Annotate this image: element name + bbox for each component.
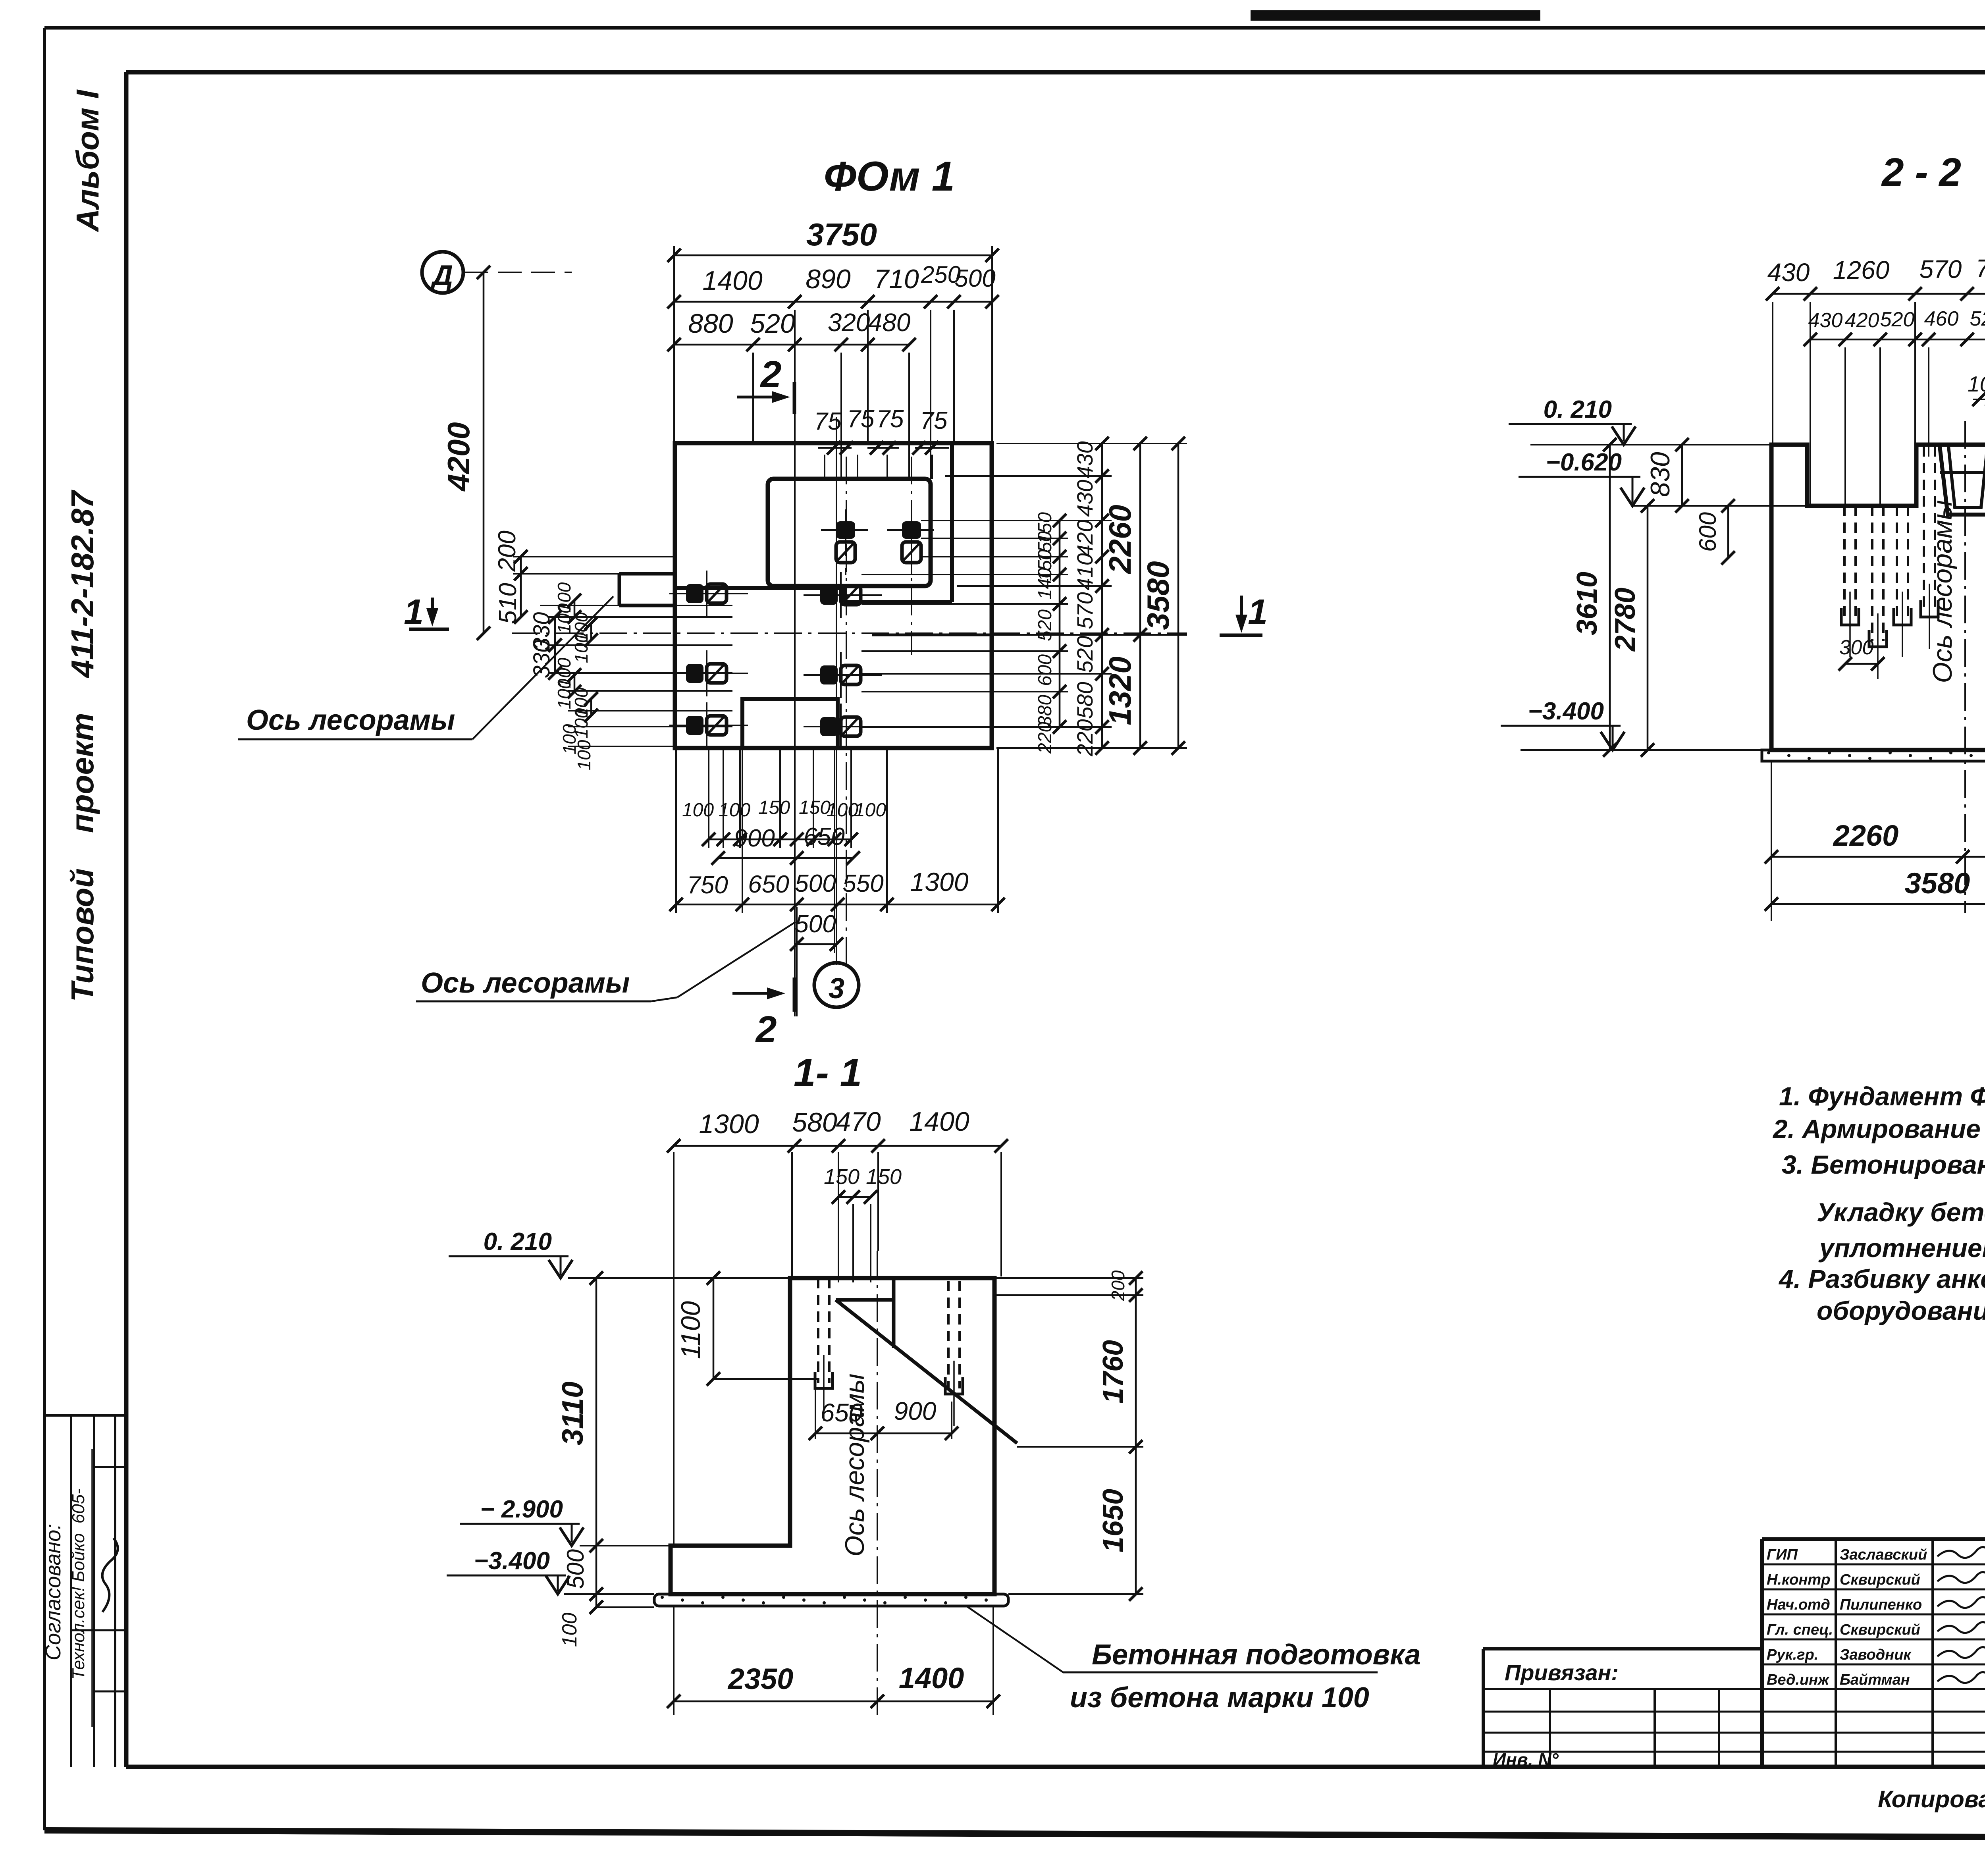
svg-text:Бетонная подготовка: Бетонная подготовка — [1092, 1639, 1421, 1671]
plan right dimension 2260/1320 — [1102, 437, 1147, 755]
plan title: ФОм 1 — [824, 153, 955, 200]
section 2-2 anchor pocket — [1940, 446, 1985, 515]
plan right witness lines — [861, 443, 1187, 748]
svg-text:1400: 1400 — [899, 1662, 964, 1695]
svg-text:500: 500 — [562, 1549, 589, 1589]
section 1-1 level -2.900 — [460, 1496, 671, 1546]
svg-text:650: 650 — [821, 1398, 863, 1427]
svg-text:430: 430 — [1072, 480, 1097, 517]
section 2-2 level -0.620 — [1519, 449, 1807, 506]
svg-text:3. Бетонирование фундамента: 3. Бетонирование фундамента ФОм1 вести н… — [1782, 1150, 1985, 1179]
svg-text:100: 100 — [854, 800, 886, 821]
section title: 2 - 2 — [1881, 150, 1961, 195]
section 2-2 level 0.210 — [1509, 396, 1636, 445]
section 2-2 footing slab — [1762, 750, 1985, 761]
svg-text:уплотнением глубинными вибр: уплотнением глубинными вибраторами. — [1818, 1233, 1985, 1263]
label: Бетонная подготовка (section 1-1) — [966, 1606, 1421, 1714]
svg-text:520: 520 — [1880, 308, 1915, 331]
section 1-1 bottom dims 2350/1400 — [667, 1606, 1000, 1715]
grid axis 3 (circle, below plan) — [814, 944, 859, 1007]
plan interior step lines — [675, 443, 992, 635]
svg-text:650: 650 — [804, 823, 844, 850]
svg-text:1320: 1320 — [1102, 656, 1137, 725]
svg-text:1300: 1300 — [699, 1109, 759, 1139]
grid axis Д (circle) — [422, 252, 572, 293]
margin text: Технол.сек Бойко — [69, 1449, 118, 1727]
svg-text:Копировал Герман: Копировал Герман — [1878, 1786, 1985, 1812]
section 2-2 level -3.400 — [1501, 698, 1762, 750]
svg-text:300: 300 — [1839, 636, 1874, 659]
plan witness lines from top chains — [753, 310, 954, 1016]
svg-text:150: 150 — [799, 797, 831, 818]
svg-text:100: 100 — [719, 800, 750, 821]
section 1-1 saw-frame axis — [840, 1251, 877, 1719]
section 1-1 right dims 200/1760/1650 — [994, 1270, 1143, 1601]
svg-text:320: 320 — [828, 308, 870, 337]
svg-text:600: 600 — [1694, 512, 1721, 552]
section 1-1 level 0.210 — [449, 1228, 790, 1278]
svg-text:520: 520 — [1970, 307, 1985, 330]
signature table texts — [1767, 1546, 1985, 1688]
section title: 1-1 — [794, 1051, 862, 1095]
plan left witness lines — [513, 557, 732, 746]
svg-text:100: 100 — [827, 800, 858, 821]
svg-text:1400: 1400 — [702, 266, 762, 296]
label: Ось лесорамы (left) — [238, 596, 613, 739]
section 2-2 left dims: 830 600 2780 3610 — [1530, 438, 1771, 757]
svg-text:1650: 1650 — [1097, 1489, 1129, 1552]
plan anchor bolts (left column) — [669, 571, 748, 748]
title block: signature table — [1762, 1539, 1985, 1767]
svg-text:75: 75 — [847, 405, 875, 433]
svg-text:1: 1 — [1248, 592, 1268, 632]
svg-text:2780: 2780 — [1609, 588, 1641, 652]
svg-text:ГИП: ГИП — [1767, 1546, 1798, 1563]
section 1-1 anchor bolts — [815, 1278, 963, 1426]
svg-text:480: 480 — [868, 308, 911, 337]
notes list — [1772, 1082, 1985, 1325]
svg-text:Н.контр: Н.контр — [1767, 1571, 1830, 1588]
svg-text:75: 75 — [877, 405, 904, 433]
svg-text:140: 140 — [1035, 568, 1056, 600]
section mark 2 (top) — [737, 353, 794, 414]
svg-text:3750: 3750 — [806, 217, 877, 252]
svg-text:4200: 4200 — [441, 422, 476, 492]
margin text: Типовой проект 411-2-182.87 — [65, 490, 100, 1002]
svg-text:220: 220 — [1035, 722, 1056, 754]
svg-text:1400: 1400 — [909, 1107, 969, 1137]
svg-text:830: 830 — [1645, 452, 1675, 497]
svg-text:0. 210: 0. 210 — [484, 1228, 552, 1255]
plan left small 100 dimensions — [554, 582, 598, 770]
plan lower dimension row 100 100 150 150 100 100 — [682, 797, 886, 846]
svg-text:Альбом I: Альбом I — [70, 89, 105, 233]
svg-text:100: 100 — [1968, 372, 1985, 396]
svg-text:1- 1: 1- 1 — [794, 1051, 862, 1095]
svg-text:Ось лесорамы: Ось лесорамы — [1927, 500, 1958, 683]
dimension chain: 880 520 320 480 — [667, 308, 916, 351]
svg-text:Привязан:: Привязан: — [1505, 1660, 1619, 1685]
svg-text:220: 220 — [1072, 719, 1097, 756]
svg-text:Пилипенко: Пилипенко — [1840, 1596, 1922, 1613]
section 2-2 bottom dims 2260/1320 — [1765, 761, 1985, 921]
svg-text:2 - 2: 2 - 2 — [1881, 150, 1961, 195]
svg-text:750: 750 — [687, 871, 728, 899]
svg-text:460: 460 — [1924, 307, 1959, 330]
section 2-2 small dim 100 — [1968, 372, 1985, 406]
section 2-2 saw-frame axis — [1927, 421, 1965, 913]
section marks 1-1 on plan — [404, 592, 449, 632]
svg-text:580: 580 — [1072, 682, 1097, 719]
svg-text:2: 2 — [760, 353, 782, 395]
svg-text:430: 430 — [1072, 441, 1097, 478]
svg-text:420: 420 — [1072, 520, 1097, 557]
svg-text:3580: 3580 — [1905, 867, 1970, 900]
plan right dimension 3580 — [1141, 437, 1185, 755]
svg-text:510: 510 — [494, 583, 522, 624]
svg-text:Нач.отд: Нач.отд — [1767, 1596, 1830, 1613]
section 1-1 footing slab — [654, 1594, 1008, 1606]
svg-text:ФОм 1: ФОм 1 — [824, 153, 955, 200]
svg-text:1. Фундамент ФОм1 замаркиров: 1. Фундамент ФОм1 замаркирован на листе … — [1779, 1082, 1985, 1111]
svg-text:570: 570 — [1072, 592, 1097, 629]
margin approval table — [44, 1415, 126, 1767]
svg-text:−3.400: −3.400 — [1528, 698, 1604, 725]
margin text: Альбом I — [70, 89, 105, 233]
svg-text:710: 710 — [874, 264, 919, 294]
svg-text:оборудования.: оборудования. — [1817, 1296, 1985, 1325]
section 2-2 chain2: 430 420 520 460 520 580 230 — [1804, 307, 1985, 346]
svg-text:из бетона марки 100: из бетона марки 100 — [1070, 1682, 1369, 1714]
plan right dimension chain 430..220 — [1072, 437, 1109, 757]
svg-text:Укладку бетона вести горизо: Укладку бетона вести горизонтальными сло… — [1817, 1197, 1985, 1227]
svg-text:150: 150 — [758, 797, 790, 818]
title block: left (Привязан) table — [1483, 1649, 1762, 1770]
dimension row: 75 75 75 75 — [814, 405, 949, 455]
section 1-1 body outline — [671, 1278, 1017, 1594]
svg-text:3610: 3610 — [1571, 572, 1603, 635]
svg-text:900: 900 — [734, 825, 775, 852]
svg-text:550: 550 — [842, 870, 883, 897]
top edge scan smear — [1251, 10, 1540, 21]
svg-text:100: 100 — [558, 1613, 581, 1647]
svg-text:150: 150 — [824, 1165, 860, 1189]
svg-text:2. Армирование фундамента ФО: 2. Армирование фундамента ФОм1 см. лист … — [1772, 1114, 1985, 1143]
svg-text:150: 150 — [866, 1165, 902, 1189]
svg-text:Ось лесорамы: Ось лесорамы — [421, 967, 630, 999]
svg-text:Согласовано:: Согласовано: — [41, 1524, 65, 1660]
dimension chain: 3750 — [667, 217, 999, 443]
svg-text:Ось лесорамы: Ось лесорамы — [246, 704, 455, 736]
svg-text:75: 75 — [814, 408, 842, 435]
margin text: Согласовано — [41, 1524, 65, 1660]
section mark 2 (bottom) — [732, 978, 794, 1051]
section 1-1 dim 650/900 — [809, 1390, 958, 1440]
plan left notch — [619, 574, 675, 605]
dimension chain: 1400 890 710 250 500 — [667, 261, 999, 308]
svg-text:3: 3 — [829, 973, 844, 1005]
plan left dimension chain 200/510 — [493, 530, 528, 624]
svg-text:1760: 1760 — [1097, 1340, 1129, 1404]
svg-text:2260: 2260 — [1102, 505, 1137, 575]
svg-text:Гл. спец.: Гл. спец. — [1767, 1621, 1833, 1638]
svg-text:Сквирский: Сквирский — [1840, 1571, 1920, 1588]
svg-text:430: 430 — [1808, 309, 1843, 332]
svg-text:200: 200 — [1108, 1270, 1128, 1301]
svg-text:1260: 1260 — [1833, 256, 1890, 284]
svg-text:100: 100 — [574, 740, 594, 770]
svg-text:Технол.сек! Бойко 605‑: Технол.сек! Бойко 605‑ — [69, 1488, 88, 1680]
plan lower dimension 900/650 — [711, 823, 860, 865]
section 2-2 bottom dim 3580 — [1765, 867, 1985, 911]
svg-text:Заводник: Заводник — [1840, 1647, 1912, 1663]
svg-text:720: 720 — [1976, 254, 1985, 283]
svg-text:500: 500 — [795, 910, 836, 938]
section 1-1 witness verticals — [674, 1152, 1001, 1544]
svg-text:650: 650 — [748, 871, 789, 898]
plan centrelines — [512, 457, 1187, 969]
svg-text:Вед.инж: Вед.инж — [1767, 1672, 1830, 1688]
svg-text:520: 520 — [1072, 636, 1097, 673]
svg-text:2350: 2350 — [727, 1662, 794, 1695]
plan anchor bolts (middle column) — [804, 572, 882, 750]
svg-text:520: 520 — [1035, 609, 1056, 641]
plan lower dimension 500 — [790, 907, 843, 1016]
svg-text:75: 75 — [920, 407, 948, 434]
svg-text:430: 430 — [1767, 258, 1810, 287]
section 1-1 level -3.400 — [447, 1547, 654, 1594]
section 2-2 top chain: 430 1260 570 720 600 — [1766, 253, 1985, 301]
svg-text:880: 880 — [688, 308, 733, 339]
section 1-1 left dims 3110/500/100 — [556, 1271, 671, 1647]
svg-text:−3.400: −3.400 — [474, 1547, 550, 1575]
svg-text:Д: Д — [430, 260, 453, 291]
svg-text:520: 520 — [750, 308, 795, 339]
svg-text:2260: 2260 — [1833, 819, 1899, 852]
svg-text:890: 890 — [806, 264, 851, 294]
section 2-2 witness verticals — [1773, 302, 1985, 508]
plan right small dimension chain (150s) — [1035, 512, 1066, 754]
svg-text:410: 410 — [1072, 553, 1097, 590]
section 1-1 chain2: 150 150 — [824, 1165, 902, 1204]
svg-text:3110: 3110 — [556, 1381, 589, 1445]
svg-text:470: 470 — [836, 1107, 881, 1137]
svg-text:Сквирский: Сквирский — [1840, 1621, 1920, 1638]
svg-text:1100: 1100 — [676, 1301, 706, 1359]
section 1-1 top chain: 1300 580 470 1400 — [667, 1107, 1008, 1153]
footer: Копировал Герман — [1878, 1786, 1985, 1812]
svg-text:100: 100 — [682, 800, 714, 821]
svg-text:Инв. N°: Инв. N° — [1493, 1749, 1559, 1770]
svg-text:500: 500 — [954, 265, 995, 292]
svg-text:500: 500 — [795, 870, 836, 897]
svg-text:2: 2 — [755, 1008, 777, 1051]
svg-text:Рук.гр.: Рук.гр. — [1767, 1647, 1818, 1663]
svg-text:420: 420 — [1845, 309, 1879, 332]
svg-text:570: 570 — [1919, 255, 1962, 283]
plan left dimension chain 330/330 — [529, 610, 562, 680]
svg-text:600: 600 — [1035, 654, 1056, 686]
svg-text:1: 1 — [404, 592, 424, 632]
svg-text:− 2.900: − 2.900 — [480, 1496, 563, 1523]
section 2-2 anchor bolts — [1841, 446, 1985, 679]
svg-text:Заславский: Заславский — [1840, 1546, 1927, 1563]
svg-text:4. Разбивку анкерных болтов: 4. Разбивку анкерных болтов уточнить по … — [1778, 1264, 1985, 1294]
plan lower witness lines — [676, 748, 998, 953]
section 2-2 small dim 300 — [1839, 636, 1885, 671]
plan lower inner panel — [742, 699, 838, 748]
svg-text:200: 200 — [493, 530, 521, 572]
plan anchor bolts (upper group) — [821, 509, 936, 575]
svg-text:3580: 3580 — [1141, 561, 1176, 630]
dimension 4200 (axis to saw-frame axis) — [441, 266, 490, 640]
label: Ось лесорамы (below plan) — [416, 922, 796, 1001]
plan upper bolt panel — [768, 479, 931, 586]
svg-text:Байтман: Байтман — [1840, 1672, 1910, 1688]
section 2-2 body outline — [1771, 445, 1985, 750]
svg-text:1300: 1300 — [910, 867, 969, 897]
svg-text:580: 580 — [792, 1107, 837, 1138]
svg-text:Типовой проект 411-2-182: Типовой проект 411-2-182.87 — [65, 490, 100, 1002]
svg-text:0. 210: 0. 210 — [1544, 396, 1612, 423]
svg-text:900: 900 — [894, 1397, 937, 1425]
section 1-1 dim 1100 — [676, 1271, 818, 1386]
plan outline — [675, 443, 992, 748]
plan lower dimension 750 650 500 550 1300 — [669, 867, 1005, 911]
